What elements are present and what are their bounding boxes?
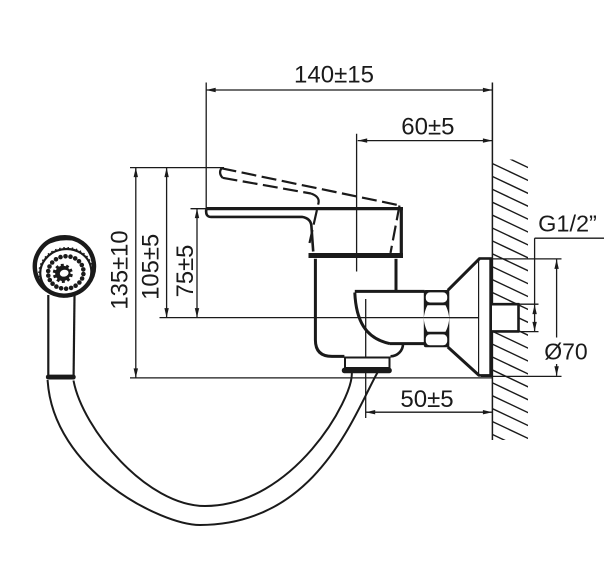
axis line over nut (424, 317, 479, 319)
svg-text:Ø70: Ø70 (544, 339, 587, 365)
dim 140±15 (206, 83, 492, 209)
hose nut (345, 358, 390, 369)
svg-text:G1/2”: G1/2” (538, 211, 597, 237)
G1/2 leader (520, 238, 605, 331)
axis line outlet (160, 317, 479, 319)
lever raised (dashed) (220, 168, 399, 253)
shower head centre gear (55, 266, 70, 281)
dim 50±5 (366, 299, 493, 418)
bottom reference line (130, 377, 492, 379)
shower head nozzles (46, 254, 86, 291)
svg-text:60±5: 60±5 (401, 113, 454, 140)
svg-text:105±5: 105±5 (137, 234, 164, 300)
extension line top (lever raised) (130, 167, 224, 169)
lever handle (207, 207, 404, 210)
dim Ø70 (480, 259, 562, 377)
wall face line (491, 83, 493, 441)
cartridge cap bottom band (309, 253, 404, 258)
cartridge cap right edge (400, 209, 403, 258)
faucet body (315, 259, 344, 357)
dim 60±5 (357, 134, 493, 272)
shower hose (48, 373, 378, 526)
outlet duct (355, 290, 425, 293)
hex nut wall connection (424, 290, 450, 347)
svg-text:75±5: 75±5 (172, 245, 199, 298)
svg-text:140±15: 140±15 (294, 62, 374, 89)
shower handle (47, 295, 49, 376)
nipple G1/2 (492, 305, 519, 331)
dim 75±5 (196, 209, 198, 318)
dim 135±10 (135, 168, 137, 378)
extension line 75 top (191, 208, 208, 210)
svg-text:50±5: 50±5 (400, 386, 453, 413)
dim 105±5 (166, 168, 168, 318)
svg-text:135±10: 135±10 (106, 230, 133, 309)
shower head (31, 233, 98, 301)
escutcheon cone (448, 259, 480, 291)
wall hatching (491, 150, 530, 452)
escutcheon plate (478, 258, 480, 376)
